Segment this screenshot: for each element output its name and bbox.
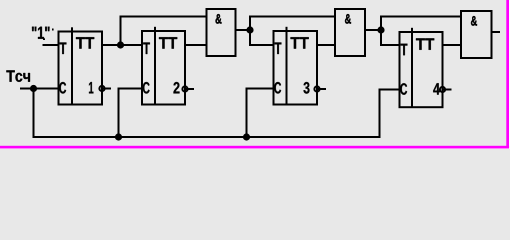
wire Tcount to C input of FF1 bbox=[20, 88, 58, 90]
wire clock bus up to C input of FF2 bbox=[118, 89, 120, 138]
wire U1 junction vertical bbox=[249, 16, 251, 46]
wire "1" to T input of FF1 bbox=[43, 44, 59, 46]
FF2 pin label T bbox=[143, 42, 150, 54]
window border magenta right line bbox=[506, 0, 509, 149]
wire U1 to AND gate U2 input 1 bbox=[249, 16, 335, 18]
U2 body bbox=[335, 9, 365, 56]
FF4 designator TT bbox=[416, 38, 434, 49]
label Tcount (clock input) bbox=[6, 70, 30, 81]
FF4 pin label T bbox=[401, 44, 408, 56]
FF3 pin label C bbox=[274, 82, 281, 94]
U1 body bbox=[207, 9, 236, 56]
junction clock bus FF3 bbox=[243, 133, 250, 140]
wire Tcount junction down to clock bus bbox=[33, 89, 35, 138]
FF2 designator TT bbox=[159, 37, 177, 48]
wire U1 to T input of FF3 bbox=[249, 44, 273, 46]
FF2 body bbox=[142, 31, 185, 105]
FF4 inverse output stub bbox=[443, 89, 452, 91]
flip-flop FF3 (TT) bbox=[274, 27, 327, 105]
wire Q3 from FF3 to AND gate U2 input 2 bbox=[318, 44, 335, 46]
white sliver below magenta border bbox=[0, 148, 510, 151]
AND gate U2 bbox=[335, 9, 365, 56]
U3 body bbox=[461, 11, 492, 58]
FF1 pin label C bbox=[59, 82, 66, 94]
wire clock bus up to C input of FF4 bbox=[379, 90, 381, 138]
junction on Q1 wire bbox=[117, 41, 124, 48]
wire Q1 to AND gate U1 input 1 bbox=[120, 16, 207, 18]
FF1 body bbox=[59, 32, 103, 105]
FF2 divider bbox=[154, 27, 156, 105]
AND gate U3 bbox=[461, 11, 492, 58]
U1 label & bbox=[215, 14, 221, 23]
quote artifact dot below label "1" bbox=[43, 38, 45, 40]
FF3 designator TT bbox=[291, 37, 309, 48]
FF3 divider bbox=[286, 27, 288, 105]
U2 label & bbox=[345, 14, 351, 23]
label "1" (logic high constant) bbox=[32, 27, 50, 39]
FF3 inverse output pin ring bbox=[314, 86, 319, 91]
wire to C input of FF2 bbox=[118, 88, 142, 90]
wire Q2 from FF2 to AND gate U1 input 2 bbox=[186, 44, 207, 46]
FF1 designator TT bbox=[76, 37, 94, 48]
FF1 output label 1 bbox=[89, 82, 93, 93]
FF3 inverse output stub bbox=[317, 88, 326, 90]
wire to C input of FF3 bbox=[246, 88, 274, 90]
FF1 pin label T bbox=[60, 42, 67, 54]
FF1 inverse output stub bbox=[102, 88, 111, 90]
FF4 pin label C bbox=[400, 83, 407, 95]
junction on Tcount wire bbox=[30, 85, 37, 92]
FF2 inverse output pin ring bbox=[182, 86, 187, 91]
junction AND U1 output bbox=[246, 26, 253, 33]
FF4 divider bbox=[411, 28, 413, 107]
wire to C input of FF4 bbox=[379, 89, 400, 91]
flip-flop FF2 (TT) bbox=[142, 27, 194, 105]
FF3 body bbox=[274, 31, 318, 105]
canvas background bbox=[0, 0, 510, 149]
FF2 inverse output stub bbox=[185, 88, 194, 90]
U3 label & bbox=[471, 16, 477, 25]
wire Q1 from FF1 to T input of FF2 bbox=[103, 44, 142, 46]
flip-flop FF1 (TT) bbox=[59, 27, 112, 104]
FF2 output label 2 bbox=[174, 82, 180, 93]
wire clock bus up to C input of FF3 bbox=[246, 89, 248, 138]
FF4 body bbox=[400, 32, 443, 107]
junction clock bus FF2 bbox=[115, 133, 122, 140]
FF4 output label 4 bbox=[433, 83, 440, 94]
wire U2 to T input of FF4 bbox=[380, 44, 399, 46]
wire AND U2 output bbox=[366, 29, 382, 31]
FF2 pin label C bbox=[143, 82, 150, 94]
FF1 divider bbox=[71, 27, 73, 104]
wire AND U3 output (carry out) bbox=[492, 31, 500, 33]
AND gate U1 bbox=[207, 9, 236, 56]
flip-flop FF4 (TT) bbox=[400, 28, 452, 107]
FF3 pin label T bbox=[275, 42, 282, 54]
wire Q1 junction up bbox=[120, 16, 122, 46]
wire U2 to AND gate U3 input 1 bbox=[380, 16, 461, 18]
FF1 inverse output pin ring bbox=[99, 86, 104, 91]
junction AND U2 output bbox=[377, 26, 384, 33]
window border magenta bottom line bbox=[0, 146, 510, 149]
wire AND U1 output bbox=[236, 29, 250, 31]
FF4 inverse output pin ring bbox=[440, 87, 445, 92]
wire U2 junction vertical bbox=[380, 16, 382, 46]
white sliver right of magenta border bbox=[508, 0, 510, 149]
quote artifact dot right of label "1" bbox=[52, 29, 54, 31]
wire Q4 from FF4 to AND gate U3 input 2 bbox=[443, 44, 461, 46]
FF3 output label 3 bbox=[303, 82, 309, 94]
clock bus bottom horizontal wire bbox=[33, 136, 381, 138]
